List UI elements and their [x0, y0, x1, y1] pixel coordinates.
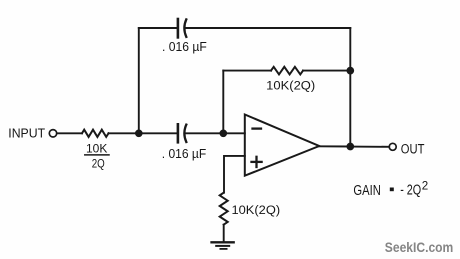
wire right leg down to node C	[349, 28, 351, 147]
op-amp U1 minus pin mark	[253, 127, 262, 129]
node INPUT terminal	[49, 130, 56, 137]
resistor R3 10K(2Q) to ground	[220, 193, 228, 225]
svg-text:OUT: OUT	[401, 141, 425, 157]
node OUT terminal	[389, 143, 396, 150]
wire node B up (left leg of R2 loop)	[222, 71, 224, 134]
wire R2 to node D	[303, 70, 350, 72]
resistor R2 10K(2Q) feedback	[271, 67, 303, 75]
op-amp U1	[245, 115, 319, 176]
node B junction (inverting input)	[220, 130, 226, 136]
wire input terminal to R1	[57, 132, 82, 134]
capacitor C2 .016uF series	[178, 124, 186, 142]
wire node A to C2	[139, 132, 177, 134]
wire op-amp non-inverting input to left	[224, 156, 245, 193]
svg-text:10K(2Q): 10K(2Q)	[232, 203, 281, 217]
wire C1 to top right corner	[186, 27, 350, 29]
svg-text:2: 2	[422, 180, 428, 193]
wire node A up (left leg of C1 loop)	[138, 28, 140, 133]
op-amp U1 plus pin mark	[252, 157, 262, 167]
svg-text:GAIN: GAIN	[353, 183, 380, 199]
resistor R1 10K/2Q	[82, 130, 109, 137]
wire top left to C1	[139, 27, 177, 29]
svg-text:10K: 10K	[86, 142, 107, 156]
wire node C to OUT terminal	[350, 146, 389, 148]
wire R3 to ground	[223, 225, 225, 243]
wire node B to op-amp inverting input	[223, 132, 245, 134]
svg-text:INPUT: INPUT	[8, 126, 45, 141]
wire R1 to node A	[109, 132, 139, 134]
wire op-amp output to node C	[319, 145, 350, 147]
svg-text:- 2Q: - 2Q	[400, 183, 421, 199]
wire to R2	[223, 70, 271, 72]
value label fraction bar 10K/2Q	[85, 154, 109, 156]
node A junction	[136, 130, 142, 136]
capacitor C1 .016uF feedback	[178, 19, 186, 37]
label GAIN = -2Q^2	[353, 180, 428, 199]
node C junction (output net)	[347, 144, 353, 150]
wire C2 to node B	[186, 132, 223, 134]
node D junction (feedback tie)	[347, 68, 353, 74]
ground	[212, 242, 234, 249]
svg-text:. 016 µF: . 016 µF	[162, 39, 207, 54]
svg-text:10K(2Q): 10K(2Q)	[266, 78, 315, 92]
svg-text:. 016 µF: . 016 µF	[162, 146, 206, 161]
svg-text:SeekIC.com: SeekIC.com	[385, 240, 454, 255]
svg-text:2Q: 2Q	[92, 156, 105, 170]
